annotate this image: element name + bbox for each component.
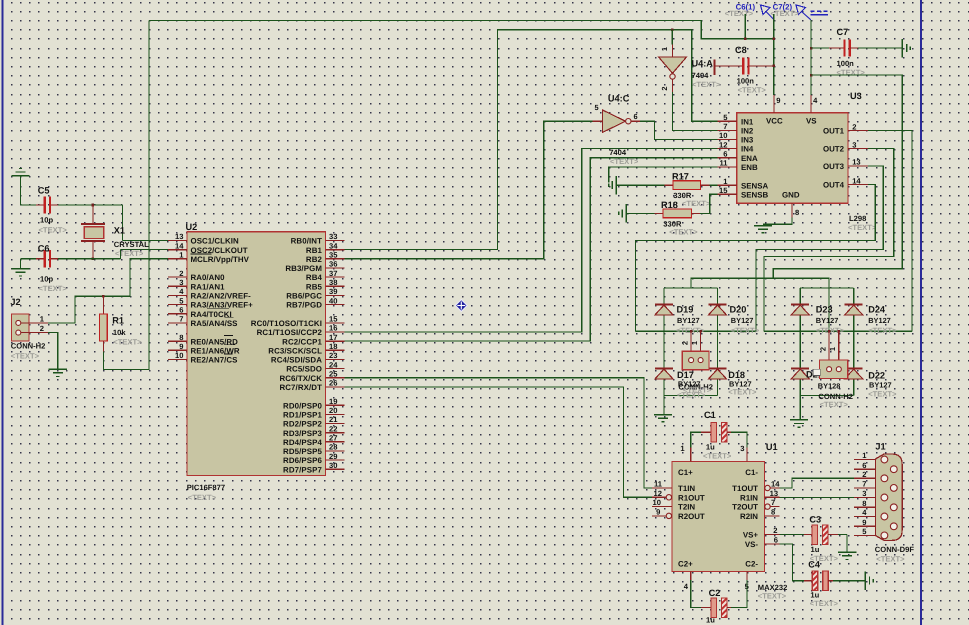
svg-text:10: 10 [719, 131, 727, 140]
svg-text:GND: GND [782, 191, 800, 200]
capacitor C2 1u [691, 580, 701, 608]
svg-text:IN4: IN4 [741, 145, 754, 154]
ground under C3 [846, 535, 848, 553]
svg-text:11: 11 [719, 159, 728, 168]
svg-text:38: 38 [329, 278, 337, 287]
svg-text:1u: 1u [706, 443, 715, 452]
svg-text:L298: L298 [849, 214, 866, 223]
svg-text:6: 6 [723, 150, 727, 159]
svg-text:35: 35 [329, 251, 338, 260]
ground under right bridge [799, 396, 801, 420]
U2 pin 26 RC7/RX/DT [326, 386, 345, 388]
U2 pin 40 RB7/PGD [326, 304, 345, 306]
wire J2 pin2 to ground [48, 333, 58, 370]
svg-text:1u: 1u [706, 616, 715, 625]
diode D17 BY127 [655, 367, 673, 369]
svg-text:<TEXT>: <TEXT> [810, 599, 839, 608]
svg-text:R1: R1 [112, 316, 124, 326]
wire C6 to OSC2 [58, 258, 121, 260]
J1 pin 5 [854, 534, 875, 536]
svg-text:RC5/SDO: RC5/SDO [286, 365, 322, 374]
svg-text:15: 15 [719, 186, 728, 195]
svg-text:C2-: C2- [745, 560, 758, 569]
svg-text:D20: D20 [730, 305, 747, 315]
svg-text:BY127: BY127 [869, 381, 892, 390]
capacitor C8 100n [713, 59, 715, 75]
svg-text:RE2/AN7/CS: RE2/AN7/CS [191, 356, 238, 365]
inverter U4:A 7404 [672, 45, 674, 58]
svg-text:X1: X1 [114, 226, 125, 236]
svg-text:40: 40 [329, 296, 337, 305]
capacitor C7 100n [810, 47, 813, 50]
svg-text:3: 3 [740, 444, 744, 453]
U2 pin 15 RC0/T1OSO/T1CKI [326, 322, 345, 324]
svg-text:5: 5 [595, 103, 599, 112]
svg-text:RB3/PGM: RB3/PGM [285, 264, 322, 273]
U2 overline CS [224, 353, 233, 355]
U2 pin 24 RC5/SDO [326, 368, 345, 370]
svg-text:C6: C6 [38, 244, 50, 254]
svg-text:3: 3 [852, 140, 856, 149]
svg-text:U4:A: U4:A [692, 59, 714, 69]
svg-text:C3: C3 [809, 515, 821, 525]
svg-text:IN3: IN3 [741, 136, 754, 145]
svg-text:OUT2: OUT2 [823, 145, 845, 154]
ground left of R18 [625, 204, 627, 222]
svg-text:RD2/PSP2: RD2/PSP2 [283, 420, 322, 429]
J1 pin 3 [854, 497, 875, 499]
U3 top pins VCC VS [773, 95, 775, 113]
svg-text:27: 27 [329, 434, 337, 443]
U2 pin 22 RD3/PSP3 [326, 432, 345, 434]
wire left bridge top rail [664, 287, 718, 289]
U2 pin 35 RB2 [326, 258, 345, 260]
svg-text:U1: U1 [766, 442, 778, 452]
U2 pin 7 RA5/AN4/SS [168, 322, 187, 324]
svg-text:<TEXT>: <TEXT> [39, 226, 68, 235]
svg-text:RB4: RB4 [306, 273, 323, 282]
wire left bridge motor bus [635, 330, 756, 332]
wire ENB stub net [609, 167, 718, 183]
svg-text:25: 25 [329, 369, 338, 378]
U2 pin 28 RD5/PSP5 [326, 450, 345, 452]
resistor R1 10k [102, 296, 104, 314]
svg-text:13: 13 [770, 489, 778, 498]
ground for C5 [11, 175, 29, 177]
svg-text:21: 21 [329, 415, 338, 424]
capacitor C6 [21, 258, 37, 260]
wire right bridge bottom rail [800, 395, 854, 397]
resistor R17 330R [616, 184, 664, 186]
U2 pin 36 RB3/PGM [326, 267, 345, 269]
svg-text:T1IN: T1IN [678, 484, 695, 493]
svg-text:8: 8 [795, 208, 799, 217]
wire OUT1 net [868, 131, 912, 332]
svg-text:33: 33 [329, 232, 337, 241]
svg-text:RC0/T1OSO/T1CKI: RC0/T1OSO/T1CKI [251, 319, 322, 328]
connector left motor CONN-H2 [690, 330, 693, 333]
U2 pin 9 RE1/AN6/WR [168, 349, 187, 351]
U2 pin 18 RC3/SCK/SCL [326, 349, 345, 351]
svg-text:9: 9 [862, 518, 866, 527]
svg-text:SENSA: SENSA [741, 181, 768, 190]
svg-text:RA1/AN1: RA1/AN1 [191, 282, 226, 291]
J1 pin 2 [854, 477, 875, 479]
svg-text:U2: U2 [186, 222, 198, 232]
U2 pin 25 RC6/TX/CK [326, 377, 345, 379]
svg-text:22: 22 [329, 424, 337, 433]
svg-text:D22: D22 [868, 371, 885, 381]
svg-text:<TEXT>: <TEXT> [188, 493, 217, 502]
svg-text:MCLR/Vpp/THV: MCLR/Vpp/THV [191, 255, 250, 264]
svg-text:10p: 10p [40, 275, 53, 284]
capacitor C5 [36, 204, 45, 206]
U2 pin 4 RA2/AN2/VREF- [168, 294, 187, 296]
ground right of C7 [901, 39, 903, 57]
svg-text:9: 9 [656, 507, 660, 516]
svg-text:R1OUT: R1OUT [678, 493, 705, 502]
svg-text:13: 13 [175, 232, 183, 241]
U2 pin 30 RD7/PSP7 [326, 468, 345, 470]
svg-text:2: 2 [179, 269, 183, 278]
J1 pin 1 [854, 459, 875, 461]
svg-text:20: 20 [329, 406, 337, 415]
wire right bridge right leg [853, 288, 855, 396]
svg-text:9: 9 [776, 96, 780, 105]
svg-text:2: 2 [819, 347, 828, 351]
svg-text:<TEXT>: <TEXT> [113, 338, 142, 347]
svg-text:T1OUT: T1OUT [732, 484, 758, 493]
ground for C6 [20, 259, 22, 269]
svg-text:<TEXT>: <TEXT> [731, 326, 760, 335]
U2 pin 17 RC2/CCP1 [326, 340, 345, 342]
svg-text:OUT1: OUT1 [823, 127, 845, 136]
U2 pin 20 RD1/PSP1 [326, 413, 345, 415]
svg-text:C1: C1 [704, 410, 716, 420]
wire terminal C6(1) down [744, 14, 746, 39]
svg-text:C5: C5 [38, 186, 50, 196]
capacitor C4 1u [779, 544, 804, 581]
svg-text:BY127: BY127 [731, 316, 754, 325]
svg-text:CRYSTAL: CRYSTAL [114, 240, 149, 249]
svg-text:OUT4: OUT4 [823, 181, 845, 190]
svg-text:PIC16F877: PIC16F877 [187, 483, 225, 492]
svg-text:7404: 7404 [609, 148, 627, 157]
svg-text:15: 15 [329, 315, 338, 324]
svg-text:100n: 100n [837, 59, 855, 68]
svg-text:12: 12 [654, 489, 662, 498]
svg-text:8: 8 [862, 499, 866, 508]
wire RB2 to U4:C input [345, 121, 593, 259]
svg-text:OUT3: OUT3 [823, 162, 845, 171]
svg-text:BY128: BY128 [818, 382, 841, 391]
svg-text:J1: J1 [875, 442, 885, 452]
wire right bridge left leg [799, 288, 801, 396]
wire T1OUT to J1 pin2 [779, 478, 856, 488]
diode D21 BY127 [791, 367, 809, 369]
wire J2 pin1 to MCLR [48, 259, 168, 323]
U2 pin 19 RD0/PSP0 [326, 404, 345, 406]
U2 pin 2 RA0/AN0 [168, 276, 187, 278]
U1 pin stubs [652, 487, 672, 489]
svg-text:RB6/PGC: RB6/PGC [286, 292, 322, 301]
wire R1IN to J1 pin3 [779, 496, 856, 498]
svg-text:<TEXT>: <TEXT> [703, 452, 732, 461]
U2 pin 21 RD2/PSP2 [326, 423, 345, 425]
svg-text:D24: D24 [868, 305, 886, 315]
svg-text:RB0/INT: RB0/INT [291, 237, 322, 246]
ground under left bridge [663, 396, 665, 415]
svg-text:RC3/SCK/SCL: RC3/SCK/SCL [268, 346, 322, 355]
wire VS to bridge supply [810, 74, 813, 77]
svg-text:<TEXT>: <TEXT> [868, 326, 897, 335]
svg-text:2: 2 [681, 341, 690, 345]
svg-text:RC1/T1OSI/CCP2: RC1/T1OSI/CCP2 [257, 328, 323, 337]
svg-text:6: 6 [862, 461, 866, 470]
J1 pin 7 [854, 487, 875, 489]
svg-text:<TEXT>: <TEXT> [758, 592, 787, 601]
wire U4:A out to IN2 [673, 92, 718, 130]
svg-text:C4: C4 [808, 560, 821, 570]
sheet border right [920, 0, 922, 625]
svg-text:10p: 10p [40, 216, 53, 225]
svg-text:D19: D19 [677, 305, 694, 315]
wire RB1 to U4:A and IN1 [345, 30, 718, 250]
svg-text:2: 2 [40, 324, 44, 333]
svg-text:<TEXT>: <TEXT> [738, 86, 767, 95]
svg-text:D23: D23 [816, 305, 833, 315]
svg-text:BY127: BY127 [868, 316, 891, 325]
capacitor C1 1u [691, 432, 701, 447]
svg-text:3: 3 [179, 278, 183, 287]
U2 pin 3 RA1/AN1 [168, 285, 187, 287]
svg-text:C8: C8 [735, 45, 747, 55]
svg-text:RC6/TX/CK: RC6/TX/CK [279, 374, 322, 383]
crystal X1 [92, 205, 94, 224]
svg-text:<TEXT>: <TEXT> [115, 249, 144, 258]
U2 pin 1 MCLR/Vpp/THV [168, 258, 187, 260]
U2 overline WR [225, 344, 236, 346]
wire R1 bottom to VCC rail [103, 21, 149, 370]
U2 pin 29 RD6/PSP6 [326, 459, 345, 461]
origin marker [455, 300, 467, 312]
power symbol blue [811, 10, 829, 12]
U2 pin 14 OSC2/CLKOUT [168, 249, 187, 251]
wire right bridge motor bus [764, 330, 912, 332]
svg-text:RD6/PSP6: RD6/PSP6 [283, 456, 322, 465]
wire left bridge left leg [663, 288, 665, 396]
wire C5 to OSC1 [58, 204, 122, 206]
svg-text:VS: VS [806, 117, 817, 126]
svg-text:8: 8 [771, 507, 775, 516]
wire OUT2 net [764, 149, 894, 332]
svg-text:RC2/CCP1: RC2/CCP1 [282, 337, 322, 346]
connector J1 CONN-D9F [875, 454, 902, 540]
svg-text:2: 2 [773, 526, 777, 535]
U2 pin 34 RB1 [326, 249, 345, 251]
svg-text:CONN-D9F: CONN-D9F [875, 545, 915, 554]
svg-text:11: 11 [654, 480, 663, 489]
wire OUT3 net [756, 166, 883, 331]
svg-text:RD7/PSP7: RD7/PSP7 [283, 465, 322, 474]
J1 pin 4 [854, 516, 875, 518]
wire RC6 to T1IN [345, 378, 652, 488]
svg-text:8: 8 [179, 333, 183, 342]
svg-text:R18: R18 [661, 200, 678, 210]
svg-text:1: 1 [828, 347, 837, 351]
U2 pin 8 RE0/AN5/RD [168, 340, 187, 342]
U2 pin 5 RA3/AN3/VREF+ [168, 304, 187, 306]
svg-text:34: 34 [329, 241, 338, 250]
wire C5 net [21, 204, 37, 206]
svg-text:1: 1 [690, 341, 699, 345]
svg-text:12: 12 [719, 140, 727, 149]
wire RC1 to IN4 [345, 149, 718, 332]
U2 overline RD [224, 335, 233, 337]
U3 pin stubs left [718, 120, 737, 122]
svg-text:6: 6 [774, 535, 778, 544]
wire VCC top rail [149, 21, 774, 39]
svg-text:U4:C: U4:C [608, 94, 630, 104]
svg-text:9: 9 [179, 342, 183, 351]
U2 overline MCLR [191, 253, 212, 255]
svg-text:VS-: VS- [745, 540, 759, 549]
svg-text:14: 14 [852, 176, 861, 185]
svg-text:<TEXT>: <TEXT> [11, 352, 40, 361]
junction R1 top [102, 295, 105, 298]
junction crystal bottom [92, 258, 95, 261]
svg-text:36: 36 [329, 260, 337, 269]
diode D24 BY127 [845, 303, 863, 305]
svg-text:13: 13 [852, 158, 860, 167]
capacitor C3 1u [779, 534, 804, 536]
diode D22 BY127 [845, 367, 863, 369]
diode D19 BY127 [655, 303, 673, 305]
svg-text:10: 10 [175, 351, 183, 360]
wire left bridge bottom rail [664, 395, 718, 397]
svg-text:U3: U3 [850, 91, 862, 101]
svg-text:6: 6 [179, 305, 183, 314]
svg-text:2: 2 [660, 86, 669, 90]
diode D18 BY127 [709, 367, 727, 369]
svg-text:C1+: C1+ [678, 468, 693, 477]
svg-text:<TEXT>: <TEXT> [848, 223, 877, 232]
connector J2 CONN-H2 [11, 314, 29, 341]
svg-text:100n: 100n [737, 77, 755, 86]
svg-text:R2OUT: R2OUT [678, 512, 705, 521]
svg-text:26: 26 [329, 379, 337, 388]
svg-text:C7: C7 [837, 27, 849, 37]
wire RC2 to ENA [345, 158, 718, 341]
svg-text:R1IN: R1IN [740, 493, 758, 502]
svg-text:19: 19 [329, 397, 337, 406]
svg-text:<TEXT>: <TEXT> [39, 284, 68, 293]
svg-text:RB7/PGD: RB7/PGD [286, 301, 322, 310]
svg-text:BY127: BY127 [816, 316, 839, 325]
inverter U4:C 7404 [593, 120, 603, 122]
svg-text:VS+: VS+ [743, 531, 759, 540]
svg-text:C2+: C2+ [678, 560, 693, 569]
svg-text:RD0/PSP0: RD0/PSP0 [283, 401, 322, 410]
svg-text:10: 10 [653, 498, 661, 507]
U2 pin 39 RB6/PGC [326, 294, 345, 296]
svg-text:RE1/AN6/WR: RE1/AN6/WR [191, 346, 240, 355]
wire terminal C7(2) down to VCC pin9 [773, 14, 775, 95]
svg-text:RB5: RB5 [306, 282, 323, 291]
svg-text:RC4/SDI/SDA: RC4/SDI/SDA [271, 356, 322, 365]
svg-text:IN1: IN1 [741, 117, 754, 126]
svg-text:OSC2/CLKOUT: OSC2/CLKOUT [191, 246, 248, 255]
svg-text:C1-: C1- [745, 468, 758, 477]
svg-text:T2IN: T2IN [678, 503, 695, 512]
svg-text:RD3/PSP3: RD3/PSP3 [283, 429, 322, 438]
IC U1 MAX232 body [672, 462, 765, 572]
svg-text:RC7/RX/DT: RC7/RX/DT [279, 383, 322, 392]
svg-text:28: 28 [329, 443, 337, 452]
svg-text:16: 16 [329, 324, 337, 333]
svg-text:30: 30 [329, 461, 337, 470]
svg-text:ENB: ENB [741, 163, 758, 172]
svg-text:14: 14 [175, 241, 184, 250]
svg-text:BY127: BY127 [677, 316, 700, 325]
sheet border left [2, 0, 4, 625]
svg-text:1u: 1u [811, 545, 820, 554]
svg-text:ENA: ENA [741, 154, 758, 163]
svg-text:<TEXT>: <TEXT> [682, 199, 711, 208]
svg-text:<TEXT>: <TEXT> [771, 9, 800, 18]
svg-text:39: 39 [329, 287, 337, 296]
svg-text:SENSB: SENSB [741, 190, 768, 199]
svg-text:37: 37 [329, 269, 337, 278]
svg-text:<TEXT>: <TEXT> [610, 157, 639, 166]
IC U2 PIC16F877 body [187, 232, 326, 476]
diode D20 BY127 [709, 303, 727, 305]
junction crystal top [92, 204, 95, 207]
svg-text:7: 7 [771, 498, 775, 507]
svg-text:<TEXT>: <TEXT> [820, 400, 849, 409]
svg-text:OSC1/CLKIN: OSC1/CLKIN [191, 237, 240, 246]
svg-text:R17: R17 [672, 172, 689, 182]
svg-text:<TEXT>: <TEXT> [728, 388, 757, 397]
diode D23 BY127 [791, 303, 809, 305]
U2 pin 16 RC1/T1OSI/CCP2 [326, 331, 345, 333]
U2 pin 38 RB5 [326, 285, 345, 287]
U2 pin 37 RB4 [326, 276, 345, 278]
svg-text:10k: 10k [113, 328, 126, 337]
IC U3 L298 body [737, 113, 848, 203]
svg-text:18: 18 [329, 342, 337, 351]
svg-text:CONN-H2: CONN-H2 [11, 342, 46, 351]
svg-text:23: 23 [329, 351, 337, 360]
svg-text:RD5/PSP5: RD5/PSP5 [283, 447, 322, 456]
svg-text:RD4/PSP4: RD4/PSP4 [283, 438, 322, 447]
svg-text:7404: 7404 [692, 71, 710, 80]
svg-text:17: 17 [329, 333, 337, 342]
U3 pin stubs right [848, 130, 868, 132]
svg-text:RA2/AN2/VREF-: RA2/AN2/VREF- [191, 292, 252, 301]
svg-text:VCC: VCC [766, 117, 783, 126]
wire RC7 to R1OUT [345, 387, 652, 497]
svg-text:29: 29 [329, 452, 337, 461]
svg-text:7: 7 [862, 480, 866, 489]
svg-text:<TEXT>: <TEXT> [725, 9, 754, 18]
svg-text:C2: C2 [709, 588, 721, 598]
U2 pin 33 RB0/INT [326, 240, 345, 242]
svg-text:RA0/AN0: RA0/AN0 [191, 273, 226, 282]
J1 pin 6 [854, 468, 875, 470]
connector right motor CONN-H2 [828, 330, 831, 333]
ground right of C4 [864, 572, 866, 590]
